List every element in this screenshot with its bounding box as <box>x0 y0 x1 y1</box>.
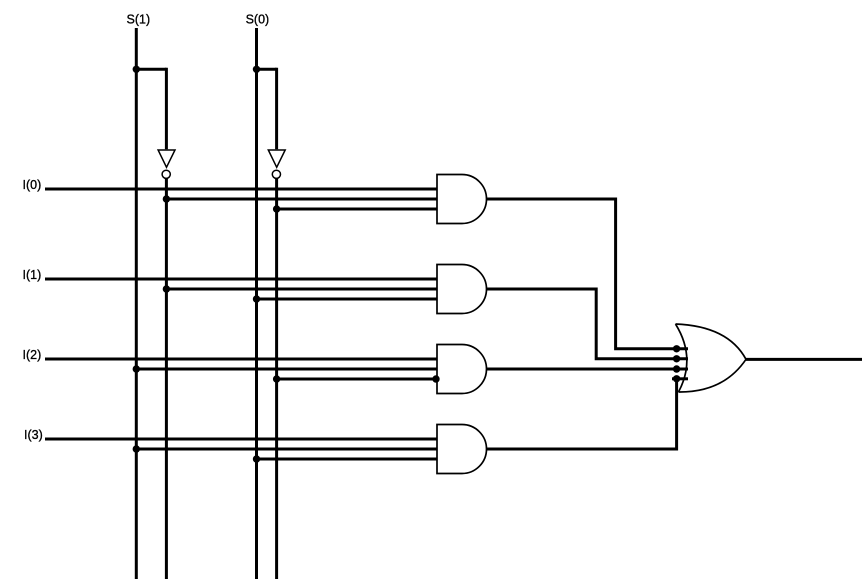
svg-text:S(0): S(0) <box>246 13 270 27</box>
svg-text:I(3): I(3) <box>24 428 43 442</box>
svg-text:S(1): S(1) <box>127 12 151 26</box>
svg-text:I(2): I(2) <box>23 348 42 362</box>
svg-text:I(0): I(0) <box>23 178 42 192</box>
svg-text:I(1): I(1) <box>23 268 42 282</box>
